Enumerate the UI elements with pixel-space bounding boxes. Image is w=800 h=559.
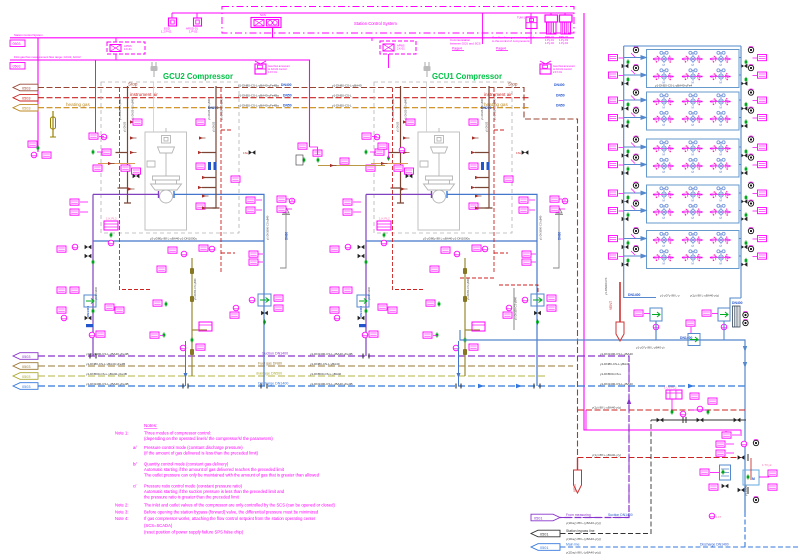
flag: collector header tag bbox=[13, 373, 38, 380]
svg-text:y1-DN1400-CS-L-yBA40: y1-DN1400-CS-L-yBA40 bbox=[600, 352, 633, 356]
cooler bay 4 bbox=[609, 182, 767, 223]
flag: from measuring bbox=[531, 514, 560, 521]
svg-text:y(1Day) 88 L-(yBA40-y(y)): y(1Day) 88 L-(yBA40-y(y)) bbox=[566, 521, 601, 525]
svg-text:y1-DN80-CS-L-yBA40-yFe4B: y1-DN80-CS-L-yBA40-yFe4B bbox=[86, 362, 125, 366]
svg-text:Page4: Page4 bbox=[452, 47, 462, 51]
svg-text:y1-DN25: y1-DN25 bbox=[212, 121, 216, 132]
svg-text:Discharge DN1400: Discharge DN1400 bbox=[258, 381, 288, 385]
op station SCS unit bbox=[251, 13, 281, 28]
node: suction tick bbox=[158, 191, 160, 198]
motor bbox=[147, 128, 182, 203]
plug icon bbox=[151, 62, 158, 77]
node: DN1400 labels cooler bbox=[628, 293, 743, 340]
svg-text:y1-yD*y 88 L-y: y1-yD*y 88 L-y bbox=[660, 294, 680, 298]
svg-text:Note 4:: Note 4: bbox=[115, 516, 129, 521]
node: heating gas labels bbox=[66, 102, 508, 107]
svg-text:1.K.PL2: 1.K.PL2 bbox=[106, 217, 117, 221]
flag: heating gas tag bbox=[13, 104, 38, 111]
svg-text:DN400: DN400 bbox=[732, 301, 743, 305]
svg-text:1.TV.y2: 1.TV.y2 bbox=[762, 463, 772, 467]
wire: red dashed riser right bbox=[221, 88, 235, 272]
wire: SCS drop to bus2 bbox=[272, 28, 274, 38]
svg-text:0501: 0501 bbox=[540, 532, 548, 536]
svg-text:Automatic starting if the suct: Automatic starting if the suction pressu… bbox=[144, 489, 285, 494]
node: olive valve blobs bbox=[190, 268, 194, 355]
node: header code texts mid bbox=[310, 352, 353, 386]
svg-text:0503: 0503 bbox=[22, 355, 30, 359]
node: discharge tick bbox=[173, 191, 175, 198]
svg-text:Suction DN1400: Suction DN1400 bbox=[262, 351, 288, 355]
svg-text:1.FT: 1.FT bbox=[716, 515, 722, 519]
wire: page4 branch 1 bbox=[482, 13, 484, 44]
wire: stop line bbox=[38, 88, 578, 458]
svg-text:1.P-02: 1.P-02 bbox=[189, 30, 198, 34]
svg-text:VENT: VENT bbox=[573, 483, 577, 492]
filter unit 1 bbox=[545, 13, 558, 45]
left instruments bbox=[609, 46, 639, 85]
svg-text:Automatic starting if the amou: Automatic starting if the amount of gas … bbox=[144, 467, 285, 472]
wire: brown utility riser right bbox=[202, 86, 220, 208]
wire: grey instrument column GCU1 bbox=[514, 288, 518, 330]
wire: main line blue dashed bbox=[538, 546, 798, 548]
flag: instrument air tag bbox=[13, 94, 38, 101]
svg-text:DN50: DN50 bbox=[556, 94, 565, 98]
cooler bay 2 bbox=[609, 89, 767, 130]
svg-text:DN50: DN50 bbox=[283, 104, 292, 108]
svg-text:instrument air: instrument air bbox=[130, 92, 158, 97]
svg-text:0503: 0503 bbox=[22, 365, 30, 369]
svg-text:y2-yD80y 88 L-yBA40-y1-DN1000y: y2-yD80y 88 L-yBA40-y1-DN1000y bbox=[150, 237, 197, 241]
svg-text:between GCU and SCS: between GCU and SCS bbox=[450, 42, 481, 46]
node: extra riser taps left bbox=[130, 119, 240, 198]
svg-text:GCU1 Compressor: GCU1 Compressor bbox=[432, 72, 502, 81]
svg-text:(SCS=SCADA): (SCS=SCADA) bbox=[144, 523, 173, 528]
node: main line labels bbox=[566, 543, 729, 555]
svg-text:Fuel gas DN80: Fuel gas DN80 bbox=[258, 361, 282, 365]
instrument cluster: antisurge controllers bbox=[664, 386, 717, 417]
instrument T-unit bbox=[517, 16, 537, 29]
svg-text:0501: 0501 bbox=[534, 516, 542, 520]
svg-text:y1-DN80-CS-L-yBA40-yFe4Ba: y1-DN80-CS-L-yBA40-yFe4Ba bbox=[238, 84, 279, 88]
instrument cluster: lower spread 2 bbox=[157, 245, 239, 318]
wire: vent red right bbox=[604, 277, 624, 341]
svg-text:Three modes of compressor cont: Three modes of compressor control: bbox=[144, 431, 211, 436]
node: header tick pairs bbox=[90, 354, 540, 389]
flag: stop line tag bbox=[13, 84, 38, 91]
svg-text:y1-yD*y 88 L-yB40-y): y1-yD*y 88 L-yB40-y) bbox=[636, 346, 665, 350]
cooler cells row2 bbox=[653, 69, 674, 85]
instrument cluster: right of enclosure bbox=[277, 196, 295, 212]
wire: station control system dash-dot frame bbox=[222, 7, 574, 34]
svg-text:y1-DN50: y1-DN50 bbox=[744, 485, 748, 496]
svg-text:y1-DN25-CS-yB40: y1-DN25-CS-yB40 bbox=[207, 98, 211, 120]
compressor unit GCU1 bbox=[330, 62, 568, 386]
svg-text:Pressure control mode (constan: Pressure control mode (constant discharg… bbox=[144, 445, 243, 450]
svg-text:GCU2 Compressor: GCU2 Compressor bbox=[163, 72, 233, 81]
svg-text:DN1400: DN1400 bbox=[628, 293, 641, 297]
svg-text:DN400: DN400 bbox=[281, 83, 292, 87]
svg-text:y(1y) 88 L-yBA40-y(y): y(1y) 88 L-yBA40-y(y) bbox=[592, 406, 621, 410]
svg-text:y1-DN50-CS-L-yBA40-yFe4Ba: y1-DN50-CS-L-yBA40-yFe4Ba bbox=[238, 94, 279, 98]
node: bus3 page tag bbox=[10, 63, 25, 70]
right manifold laterals bbox=[739, 58, 741, 76]
heater unit: blue boxes bbox=[700, 458, 777, 519]
instrument cluster: below recycle bbox=[150, 332, 165, 338]
svg-text:y(1y) 88 L-yBA40-y(y): y(1y) 88 L-yBA40-y(y) bbox=[690, 294, 719, 298]
svg-text:y1-DN1400-CS-L-yBA40-yFe4B: y1-DN1400-CS-L-yBA40-yFe4B bbox=[86, 382, 129, 386]
filter unit 2 bbox=[559, 13, 572, 45]
wire: olive drain riser bbox=[190, 258, 207, 376]
wire: suction header DN1400 bbox=[38, 356, 629, 518]
node: discharge flow arrows bbox=[478, 384, 694, 388]
svg-text:DN80: DN80 bbox=[285, 232, 289, 240]
wire: left drop x38 bbox=[37, 38, 39, 152]
svg-text:y1-DN500-CS-L: y1-DN500-CS-L bbox=[600, 372, 622, 376]
wire: brown utility riser left bbox=[116, 86, 132, 203]
svg-text:If gas compressor works, attac: If gas compressor works, attaching the f… bbox=[144, 516, 316, 521]
instrument ESD button 1 bbox=[161, 18, 177, 34]
node: bus2 page tag bbox=[10, 40, 25, 47]
wire: recycle blue bbox=[93, 240, 264, 242]
svg-text:y(1Day) 88 L-(yBA40-y(y)): y(1Day) 88 L-(yBA40-y(y)) bbox=[566, 551, 601, 555]
svg-text:y1-DN50-CS-L: y1-DN50-CS-L bbox=[332, 94, 352, 98]
svg-text:heating gas: heating gas bbox=[66, 102, 90, 107]
node: bypass labels bbox=[566, 529, 601, 541]
wire: long drop to cooler control bbox=[584, 13, 741, 430]
svg-text:1.Py-02: 1.Py-02 bbox=[545, 41, 554, 45]
svg-text:2.K-01: 2.K-01 bbox=[397, 47, 405, 51]
valve: cooler outlet right bbox=[702, 308, 730, 330]
flag: discharge header tag bbox=[13, 383, 38, 390]
svg-text:0503: 0503 bbox=[22, 385, 30, 389]
svg-text:y1-DN400-CS: y1-DN400-CS bbox=[604, 277, 608, 295]
wire: discharge header DN1400 bbox=[38, 385, 745, 387]
cooler cells row1 bbox=[653, 51, 674, 67]
svg-text:2.FY-01: 2.FY-01 bbox=[553, 70, 563, 74]
svg-text:Pressure ratio control mode (c: Pressure ratio control mode (constant pr… bbox=[144, 484, 243, 489]
svg-text:0503: 0503 bbox=[13, 65, 21, 69]
svg-text:Station Control System: Station Control System bbox=[354, 21, 397, 26]
instrument cluster: unit B drop end bbox=[378, 143, 405, 161]
wire: suction line from measuring bbox=[560, 517, 629, 519]
svg-text:y(1Day) 88 L-(yBA40-y(y)): y(1Day) 88 L-(yBA40-y(y)) bbox=[566, 537, 601, 541]
flag: fuel gas header tag bbox=[13, 363, 38, 370]
svg-text:0503: 0503 bbox=[22, 107, 30, 111]
wire: station bypass line bbox=[538, 420, 651, 534]
compressor skid box bbox=[145, 132, 187, 230]
svg-text:(if the amount of gas delivere: (if the amount of gas delivered is less … bbox=[144, 451, 259, 456]
svg-text:DN50: DN50 bbox=[556, 104, 565, 108]
wire: fuel gas header bbox=[38, 365, 573, 367]
wire: main SCS bus bbox=[172, 12, 574, 14]
svg-text:y1-DN25-CS-yB40: y1-DN25-CS-yB40 bbox=[131, 98, 135, 120]
svg-text:y1-DN1400-CS-L-yBA40-yFe4B: y1-DN1400-CS-L-yBA40-yFe4B bbox=[310, 352, 353, 356]
conduit bbox=[153, 82, 155, 132]
svg-text:y1-DN1400-CS-L-yBA40-yFe4B: y1-DN1400-CS-L-yBA40-yFe4B bbox=[310, 382, 353, 386]
svg-text:y1-DN50-CS-L-yBA40-yFe4: y1-DN50-CS-L-yBA40-yFe4 bbox=[655, 84, 693, 88]
instrument cluster: suction station lower bbox=[57, 287, 96, 327]
svg-text:1.FY-01: 1.FY-01 bbox=[268, 70, 278, 74]
svg-text:y1-DN25-CS-yB40: y1-DN25-CS-yB40 bbox=[118, 98, 122, 120]
wire: discharge main to header bbox=[744, 512, 746, 547]
wire: bus2 bbox=[10, 37, 574, 39]
svg-text:DN400: DN400 bbox=[554, 83, 565, 87]
flag: main line bbox=[531, 544, 560, 551]
svg-text:1.K-01: 1.K-01 bbox=[124, 47, 132, 51]
node: DN tags on utility lines bbox=[208, 83, 565, 110]
instrument cluster: lower spread 1 bbox=[57, 246, 124, 338]
wire: vent red bottom bbox=[573, 458, 582, 494]
wire: cooler right manifold bbox=[730, 46, 741, 308]
enclosure dashed bbox=[101, 82, 239, 233]
node: stop code texts bbox=[592, 406, 621, 458]
svg-text:The inlet and outlet valves of: The inlet and outlet valves of the compr… bbox=[144, 503, 335, 508]
svg-text:0503: 0503 bbox=[22, 97, 30, 101]
node: heating gas candle bbox=[50, 111, 56, 137]
svg-text:Station bypass line: Station bypass line bbox=[566, 529, 595, 533]
svg-text:1.2.P-01: 1.2.P-01 bbox=[161, 30, 172, 34]
wire: left stub bbox=[460, 330, 656, 340]
wire: stop spur to recycle valves bbox=[460, 278, 538, 294]
wire: cooler left manifold bbox=[624, 46, 656, 298]
svg-text:Note 3:: Note 3: bbox=[115, 510, 129, 515]
node: blue arrow on main bbox=[743, 346, 747, 368]
svg-text:y1-DN50-CS-L-yBA40-yFe4Ba: y1-DN50-CS-L-yBA40-yFe4Ba bbox=[238, 104, 279, 108]
wire: purple drop connector bbox=[628, 356, 630, 518]
wire: cooler outlet main bbox=[656, 321, 745, 512]
svg-text:The outlet pressure can only b: The outlet pressure can only be maintain… bbox=[144, 473, 320, 478]
instrument: GCU2 gas flow unit bbox=[255, 61, 290, 74]
instrument cluster: left riser valves bbox=[121, 151, 141, 191]
node: header code texts bbox=[86, 352, 633, 386]
svg-text:y1-DN1400-CS-L-yBA40-yFe4B: y1-DN1400-CS-L-yBA40-yFe4B bbox=[86, 352, 129, 356]
svg-text:Before opening the station byp: Before opening the station bypass (forwa… bbox=[144, 510, 319, 515]
instrument ESD button 2 bbox=[186, 18, 202, 34]
svg-text:Note 2:: Note 2: bbox=[115, 503, 129, 508]
flag: station bypass bbox=[531, 530, 560, 537]
instrument cluster: suction valve station bbox=[70, 199, 94, 265]
left manifold laterals bbox=[624, 56, 647, 77]
svg-text:y1-DN80-CS-L-yBA40: y1-DN80-CS-L-yBA40 bbox=[332, 84, 362, 88]
svg-text:y1-DN500-CS-L-yBA40: y1-DN500-CS-L-yBA40 bbox=[310, 372, 342, 376]
wire: stop branch lower2 bbox=[578, 457, 742, 459]
node: silencer striped bbox=[733, 306, 749, 327]
instrument cluster: lower spread 3 bbox=[249, 251, 263, 265]
valve: main line check bbox=[686, 320, 700, 346]
node: stop labels bbox=[128, 82, 518, 87]
instrument cluster: left top bbox=[89, 133, 135, 171]
svg-text:y1-DN25: y1-DN25 bbox=[123, 121, 127, 132]
svg-text:instrument air: instrument air bbox=[484, 92, 512, 97]
svg-text:drainage DN500: drainage DN500 bbox=[256, 371, 282, 375]
node: purple arrowhead bbox=[627, 398, 631, 404]
instrument: GCU1 gas flow unit bbox=[540, 61, 575, 74]
node: cooler bottom code text bbox=[636, 294, 719, 350]
node: from measuring labels bbox=[566, 513, 633, 525]
svg-text:Main line: Main line bbox=[566, 543, 580, 547]
svg-text:M: M bbox=[752, 477, 755, 481]
svg-text:0503: 0503 bbox=[22, 86, 30, 90]
svg-text:SCS: SCS bbox=[260, 13, 266, 17]
wire: right branch down bbox=[723, 321, 725, 340]
svg-text:DN50: DN50 bbox=[283, 94, 292, 98]
cooler bay 5 bbox=[609, 227, 767, 268]
svg-text:y1-DN80-CS-L-yBA40: y1-DN80-CS-L-yBA40 bbox=[600, 362, 630, 366]
svg-text:1.UV.PL2: 1.UV.PL2 bbox=[664, 386, 677, 390]
svg-text:Discharge DN1400: Discharge DN1400 bbox=[700, 543, 729, 547]
svg-text:Station Control System: Station Control System bbox=[14, 33, 43, 37]
svg-text:1.Py-04: 1.Py-04 bbox=[559, 41, 568, 45]
wire: heating gas line bbox=[38, 107, 530, 109]
instrument cluster: SCS drop end bbox=[28, 141, 51, 158]
flag: suction header tag bbox=[13, 353, 38, 360]
node: fan motor top right unit bbox=[753, 439, 758, 445]
wire: black throttling line bbox=[651, 417, 746, 423]
svg-text:DN1400: DN1400 bbox=[86, 306, 90, 317]
wire: stop branch lower bbox=[578, 409, 746, 411]
svg-text:First gas flow measurement flo: First gas flow measurement flow range: G… bbox=[14, 55, 81, 59]
wire: magenta link bottom bbox=[585, 410, 587, 430]
svg-text:y1-DN50-CS-L: y1-DN50-CS-L bbox=[332, 104, 352, 108]
wire: left drop x95.5 bbox=[95, 60, 97, 139]
node: riser text columns bbox=[94, 98, 270, 300]
svg-text:Quantity control mode (constan: Quantity control mode (constant gas deli… bbox=[144, 462, 229, 467]
wire: vent stack bbox=[280, 208, 290, 269]
valve: cooler outlet left bbox=[634, 308, 662, 330]
right instruments bbox=[741, 46, 767, 85]
svg-text:0503: 0503 bbox=[22, 375, 30, 379]
wire: collector header bbox=[38, 375, 545, 377]
svg-text:0503: 0503 bbox=[13, 42, 21, 46]
comm unit B dashed box bbox=[372, 38, 416, 68]
instrument cluster: discharge right bbox=[243, 150, 262, 213]
instrument cluster: drain assembly bbox=[153, 247, 212, 351]
svg-text:VENT: VENT bbox=[609, 301, 613, 310]
node: instrument air labels bbox=[130, 92, 512, 97]
wire: olive link to GCU1 bbox=[318, 165, 385, 167]
svg-text:y(1y) 88 L-yBA40-y(y): y(1y) 88 L-yBA40-y(y) bbox=[592, 453, 621, 457]
wire: drop to instrument 2 bbox=[196, 13, 198, 18]
instrument cluster: K-unit bbox=[104, 217, 118, 246]
wire: suction purple bbox=[93, 194, 158, 356]
svg-text:y1-DN1400-CS-L-yBA40: y1-DN1400-CS-L-yBA40 bbox=[600, 382, 633, 386]
valve: black on red line bbox=[738, 454, 748, 461]
svg-text:(reset position of power suppl: (reset position of power supply failure … bbox=[144, 530, 244, 535]
svg-text:TUM-1: TUM-1 bbox=[517, 16, 525, 20]
svg-text:y1-DN50-CS-yB40: y1-DN50-CS-yB40 bbox=[193, 278, 197, 300]
svg-text:y1-DN1000-CS-yB40: y1-DN1000-CS-yB40 bbox=[266, 215, 270, 240]
instrument cluster: right riser valves bbox=[196, 151, 217, 210]
instrument cluster: heater control boxes bbox=[716, 432, 747, 456]
node: communication note bbox=[450, 38, 481, 51]
wire: inlet risers top bbox=[624, 45, 741, 47]
svg-text:y1-DN100-CS-yB40: y1-DN100-CS-yB40 bbox=[514, 297, 518, 320]
svg-text:(depending on the operated lin: (depending on the operated line/s/ the c… bbox=[144, 436, 273, 441]
wire: drop to instrument 1 bbox=[171, 13, 173, 18]
wire: blowdown to discharge header bbox=[184, 341, 188, 386]
wire: bus3 bbox=[10, 60, 310, 147]
wire: red dashed riser left bbox=[120, 88, 151, 290]
wire: instrument air line bbox=[38, 97, 530, 99]
wire: magenta control drop links bbox=[726, 430, 741, 436]
svg-text:0501: 0501 bbox=[540, 546, 548, 550]
svg-text:Page4: Page4 bbox=[496, 47, 506, 51]
instrument cluster: discharge valve station bbox=[249, 294, 283, 325]
svg-text:to the control of compressors: to the control of compressors bbox=[492, 39, 530, 43]
svg-text:From measuring: From measuring bbox=[566, 513, 591, 517]
svg-text:y1-DN500-CS-L-yBA40-yFe4B: y1-DN500-CS-L-yBA40-yFe4B bbox=[86, 372, 127, 376]
svg-text:the pressure ratio is greater: the pressure ratio is greater than the p… bbox=[144, 495, 240, 500]
svg-text:Notes:: Notes: bbox=[144, 423, 157, 428]
svg-text:Note 1:: Note 1: bbox=[115, 431, 129, 436]
wire: discharge blue bbox=[175, 194, 265, 386]
cooler bay 3 bbox=[609, 136, 767, 177]
svg-text:1SL: 1SL bbox=[243, 151, 249, 155]
cooler bay frame bbox=[647, 50, 740, 88]
node: line code texts row bbox=[238, 84, 693, 108]
comm unit A dashed box bbox=[107, 38, 145, 60]
svg-text:y1-DN80-CS-L-yBA40: y1-DN80-CS-L-yBA40 bbox=[310, 362, 340, 366]
node: gas flow note bbox=[492, 13, 535, 51]
svg-text:y1-DN25-CS-yB40: y1-DN25-CS-yB40 bbox=[220, 98, 224, 120]
instrument cluster: bus3 drop end bbox=[296, 143, 385, 167]
